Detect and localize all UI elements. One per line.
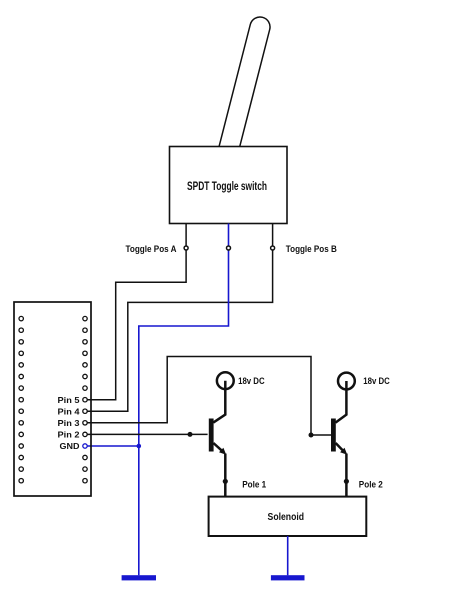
svg-text:Toggle Pos B: Toggle Pos B — [286, 244, 337, 255]
wire: GND pin to blue net — [87, 445, 139, 447]
node Pole 1 — [223, 479, 228, 484]
junction at Q2 base wire corner — [309, 433, 314, 438]
junction on Q1 base wire — [188, 432, 193, 437]
transistor Q2 collector wire — [336, 381, 347, 423]
ground symbol (right, blue) — [271, 575, 305, 580]
svg-text:SPDT Toggle switch: SPDT Toggle switch — [187, 181, 267, 193]
transistor Q2 emitter wire with arrow — [336, 443, 344, 451]
wire: Pin 3 to transistor Q2 base — [87, 357, 331, 436]
transistor Q1 emitter wire with arrow — [213, 443, 222, 451]
node: Toggle Pos B terminal — [271, 246, 275, 250]
wire: Pin 2 to transistor Q1 base — [87, 433, 208, 435]
svg-text:Toggle Pos A: Toggle Pos A — [126, 244, 177, 255]
wire: switch common to ground (blue net) — [139, 224, 229, 576]
connector J1 body — [14, 302, 91, 496]
svg-text:Pin 2: Pin 2 — [58, 430, 80, 440]
connector J1 right column pins — [83, 316, 87, 483]
power supply V1 18v DC (left) — [217, 372, 234, 389]
svg-text:Pole 2: Pole 2 — [359, 479, 383, 489]
connector J1 left column pins — [19, 316, 23, 483]
svg-text:18v DC: 18v DC — [238, 376, 265, 386]
solenoid L1 body — [209, 497, 367, 536]
svg-text:GND: GND — [60, 441, 80, 451]
svg-text:Pin 4: Pin 4 — [58, 406, 80, 416]
power supply V2 18v DC (right) — [338, 373, 355, 390]
transistor Q1 collector wire — [213, 381, 225, 423]
wire: solenoid to ground (blue) — [287, 536, 289, 575]
transistor Q2 base bar — [331, 419, 336, 452]
SPDT toggle switch body SW1 — [170, 147, 288, 224]
svg-text:18v DC: 18v DC — [363, 376, 390, 386]
wire: switch pole A to Pin 5 — [87, 224, 187, 400]
pin GND terminal (blue) — [83, 444, 87, 448]
transistor Q1 base bar — [209, 419, 214, 452]
svg-text:Pin 3: Pin 3 — [58, 418, 80, 428]
node: switch common terminal — [227, 246, 231, 250]
svg-text:Pole 1: Pole 1 — [242, 479, 266, 489]
toggle switch lever — [218, 17, 270, 155]
wire: switch pole B to Pin 4 — [87, 224, 273, 412]
node Pole 2 — [344, 479, 349, 484]
svg-text:Solenoid: Solenoid — [268, 512, 305, 523]
node: Toggle Pos A terminal — [184, 246, 188, 250]
svg-text:Pin 5: Pin 5 — [58, 395, 80, 405]
ground symbol (left, blue) — [122, 575, 156, 580]
junction on blue net at GND — [137, 444, 142, 449]
